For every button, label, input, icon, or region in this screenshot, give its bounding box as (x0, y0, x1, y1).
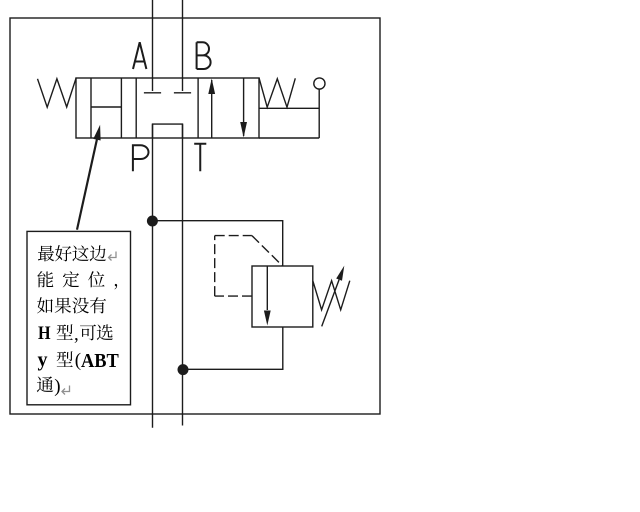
note text line 3 (37, 297, 107, 315)
valve V1 center position blocked port B (tee symbol) (174, 92, 191, 94)
annotation leader arrow (text box to valve left position) (77, 140, 97, 230)
wire relief supply (P to relief valve inlet) (152, 221, 282, 266)
return mark line 1 (109, 252, 117, 261)
note text line 2 (37, 271, 139, 289)
note text line 1 (37, 245, 106, 263)
note text line 5 (38, 351, 48, 370)
valve V1 center position blocked port A (tee symbol) (144, 92, 161, 94)
return mark line 6 (62, 386, 70, 395)
wire relief return (relief valve outlet to T) (183, 327, 283, 369)
valve V1 right position flow arrow up (211, 80, 213, 138)
wire pipe-P lower (152, 124, 154, 428)
relief valve RV1 internal flow arrow (266, 267, 268, 311)
junction node dot on P line (147, 216, 158, 227)
valve V1 divider left/center (135, 78, 137, 138)
port label A (133, 42, 146, 69)
port label T (194, 144, 206, 171)
wire pipe-T lower (182, 124, 184, 425)
relief valve spring (adjustable) (313, 281, 350, 310)
valve V1 left position H-type connection (vertical bars + crossbar) (91, 78, 121, 138)
spring left (valve return spring) (38, 78, 77, 107)
valve V1 center position P-T bypass notch (153, 124, 183, 138)
wire pipe-T upper (port T line above valve) (182, 0, 184, 91)
junction node dot on T line (178, 364, 189, 375)
pilot dashed line left segment (214, 236, 216, 297)
enclosure border box (10, 18, 380, 414)
relief valve adjustment arrow (322, 280, 339, 327)
wire pipe-P upper (port P line above valve) (152, 0, 154, 91)
valve V1 body (3-position 4-way directional valve) (76, 78, 259, 138)
annotation text box (27, 231, 131, 404)
pilot dashed line bottom segment (215, 295, 252, 297)
relief valve RV1 body (252, 266, 313, 327)
valve V1 divider center/right (197, 78, 199, 138)
pilot knob circle (314, 78, 325, 89)
spring right (valve return spring) (259, 78, 295, 107)
port label P (133, 145, 149, 171)
pilot dashed line diagonal segment (252, 236, 282, 266)
port label B (197, 42, 211, 69)
valve V1 right position flow arrow down (243, 78, 245, 136)
note text line 6 (36, 376, 54, 394)
note text line 4 (38, 324, 51, 343)
right pilot operator box (259, 89, 319, 138)
pilot dashed line top segment (215, 235, 252, 237)
